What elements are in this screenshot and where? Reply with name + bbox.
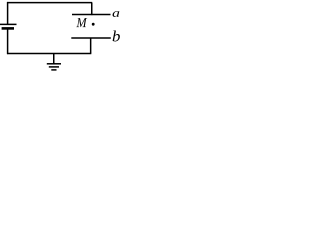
ground bar 2 bbox=[49, 66, 59, 68]
node b label bbox=[113, 31, 120, 42]
wire bottom from battery negative to node b drop bbox=[7, 53, 91, 55]
motor label M bbox=[76, 18, 87, 27]
wire left vertical battery bottom bbox=[7, 28, 9, 54]
node a label bbox=[113, 11, 120, 17]
wire left vertical battery top bbox=[7, 2, 9, 24]
wire top from battery positive to node junction bbox=[7, 2, 92, 4]
battery B1 positive plate bbox=[0, 23, 17, 25]
ground bar 3 bbox=[51, 69, 56, 71]
wire vertical from top wire down to terminal a line bbox=[91, 3, 93, 16]
wire terminal a line bbox=[72, 14, 111, 16]
ground stem bbox=[53, 54, 55, 64]
ground bar 1 bbox=[47, 63, 61, 65]
wire terminal b line bbox=[71, 37, 111, 39]
junction dot node bbox=[92, 23, 95, 26]
wire vertical from terminal b line down to bottom wire bbox=[90, 38, 92, 54]
battery B1 negative plate bbox=[2, 27, 14, 30]
